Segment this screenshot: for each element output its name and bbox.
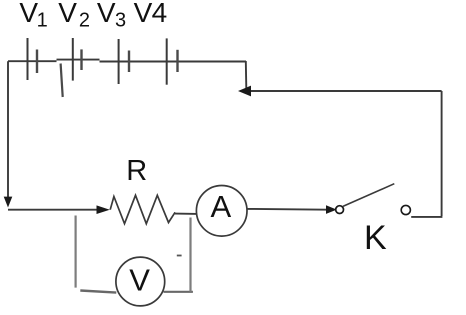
battery cell V3 long plate xyxy=(118,39,120,84)
battery cell V4 long plate xyxy=(166,38,168,84)
voltmeter branch left vertical (gray) xyxy=(74,216,76,288)
wire: right edge vertical xyxy=(441,91,443,216)
voltmeter branch bottom left wire (gray) xyxy=(80,291,116,293)
wire: battery top bus segment C xyxy=(100,61,247,63)
wire: top right drop xyxy=(245,61,248,89)
battery cell V2 short plate xyxy=(80,49,82,70)
battery cell V1 long plate xyxy=(27,38,29,80)
arrowhead pointing right at switch pivot xyxy=(326,205,337,214)
wire: battery top bus segment A xyxy=(8,60,57,62)
svg-text:2: 2 xyxy=(79,9,90,31)
svg-text:K: K xyxy=(364,219,387,257)
arrowhead pointing right before resistor xyxy=(97,205,110,214)
stray plate line below bus xyxy=(61,64,63,98)
battery cell V4 short plate xyxy=(176,50,178,72)
svg-text:R: R xyxy=(126,155,147,187)
battery cell V2 long plate xyxy=(72,38,74,81)
label V2 xyxy=(58,0,90,31)
arrowhead pointing left on return line xyxy=(238,86,251,97)
svg-text:4: 4 xyxy=(152,0,168,28)
wire: battery top bus segment B xyxy=(57,59,100,61)
arrowhead pointing down on left vertical xyxy=(4,197,13,208)
svg-text:V: V xyxy=(134,0,153,28)
svg-text:V: V xyxy=(58,0,77,28)
battery cell V1 short plate xyxy=(36,50,38,74)
svg-text:V: V xyxy=(97,0,116,28)
wire: return line to right edge xyxy=(249,90,442,92)
wire: left vertical from battery xyxy=(7,61,9,198)
resistor R zigzag xyxy=(110,195,175,223)
minus sign near voltmeter xyxy=(177,255,182,257)
svg-text:V: V xyxy=(19,0,38,28)
svg-text:1: 1 xyxy=(37,9,48,31)
ammeter A circle xyxy=(196,186,247,237)
battery cell V3 short plate xyxy=(128,51,130,73)
label V3 xyxy=(97,0,126,31)
wire: ammeter to switch xyxy=(248,208,328,211)
voltmeter branch right vertical (gray) xyxy=(189,218,191,292)
voltmeter V circle xyxy=(116,257,165,306)
wire: resistor to ammeter xyxy=(175,213,198,215)
svg-text:V: V xyxy=(129,263,150,298)
label V1 xyxy=(19,0,47,31)
switch contact circle xyxy=(401,205,410,214)
voltmeter branch bottom right wire (gray) xyxy=(164,291,193,293)
svg-text:3: 3 xyxy=(115,9,126,31)
svg-text:A: A xyxy=(211,189,232,224)
wire: switch contact to right edge xyxy=(411,216,442,218)
switch lever xyxy=(343,184,394,207)
label V4 xyxy=(134,0,168,28)
switch pivot circle xyxy=(336,206,344,214)
wire: bottom left horizontal xyxy=(8,209,98,211)
